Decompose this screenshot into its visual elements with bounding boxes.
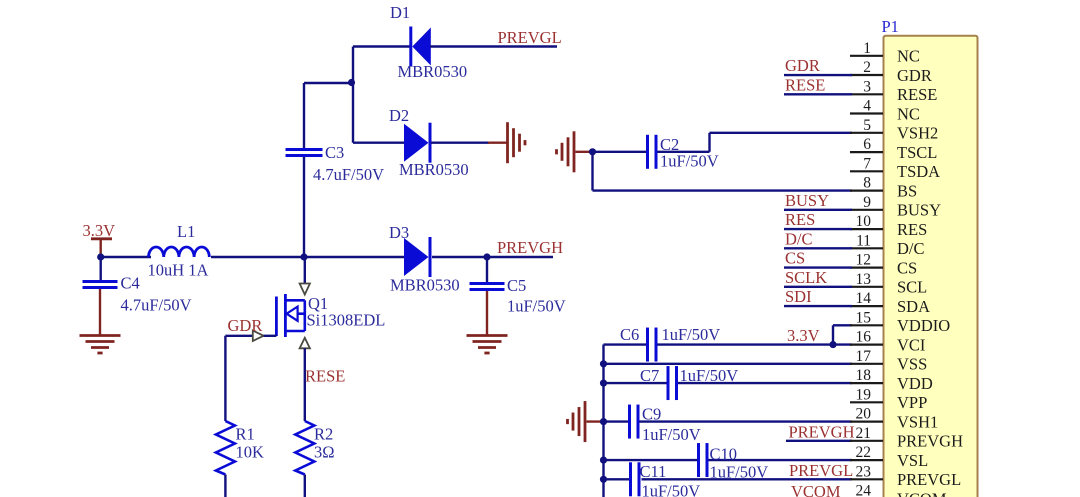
svg-text:C6: C6 [620, 325, 639, 344]
svg-text:D2: D2 [389, 106, 409, 125]
svg-text:BUSY: BUSY [897, 201, 941, 220]
svg-text:10uH 1A: 10uH 1A [148, 261, 209, 280]
svg-text:1uF/50V: 1uF/50V [680, 366, 739, 385]
svg-text:PREVGH: PREVGH [497, 238, 563, 257]
svg-text:GDR: GDR [228, 316, 263, 335]
svg-text:10K: 10K [236, 443, 265, 462]
svg-text:21: 21 [856, 425, 872, 442]
svg-text:2: 2 [863, 59, 871, 76]
svg-text:13: 13 [856, 271, 872, 288]
svg-text:1uF/50V: 1uF/50V [642, 425, 701, 444]
svg-text:C4: C4 [121, 274, 140, 293]
svg-text:1uF/50V: 1uF/50V [662, 325, 721, 344]
svg-text:6: 6 [863, 136, 871, 153]
svg-text:SCL: SCL [897, 278, 927, 297]
svg-text:VDD: VDD [897, 374, 933, 393]
svg-text:16: 16 [856, 329, 872, 346]
svg-text:L1: L1 [177, 222, 195, 241]
svg-text:SCLK: SCLK [785, 268, 827, 287]
svg-text:RESE: RESE [305, 367, 345, 386]
svg-text:MBR0530: MBR0530 [390, 276, 460, 295]
svg-text:3.3V: 3.3V [787, 326, 820, 345]
svg-text:7: 7 [863, 155, 871, 172]
svg-text:17: 17 [856, 348, 872, 365]
svg-text:C9: C9 [642, 405, 661, 424]
svg-text:12: 12 [856, 252, 872, 269]
svg-text:D3: D3 [389, 223, 409, 242]
svg-text:4: 4 [863, 98, 871, 115]
svg-text:D/C: D/C [785, 229, 813, 248]
svg-text:C3: C3 [325, 143, 344, 162]
svg-text:BS: BS [897, 181, 917, 200]
svg-text:PREVGL: PREVGL [498, 28, 562, 47]
svg-text:C10: C10 [710, 445, 738, 464]
svg-text:5: 5 [863, 117, 871, 134]
svg-text:CS: CS [897, 258, 917, 277]
svg-text:24: 24 [856, 483, 872, 497]
svg-text:RES: RES [785, 210, 815, 229]
svg-text:C11: C11 [640, 462, 667, 481]
svg-text:15: 15 [856, 309, 872, 326]
svg-text:14: 14 [856, 290, 872, 307]
svg-text:NC: NC [897, 104, 920, 123]
svg-text:NC: NC [897, 47, 920, 66]
svg-text:R1: R1 [236, 425, 255, 444]
svg-text:BUSY: BUSY [785, 191, 829, 210]
svg-text:1uF/50V: 1uF/50V [642, 482, 701, 497]
svg-text:VSH1: VSH1 [897, 412, 938, 431]
svg-text:9: 9 [863, 194, 871, 211]
svg-text:C7: C7 [640, 366, 659, 385]
svg-text:PREVGL: PREVGL [897, 470, 961, 489]
svg-text:3: 3 [863, 78, 871, 95]
svg-text:VPP: VPP [897, 393, 927, 412]
svg-text:8: 8 [863, 175, 871, 192]
svg-text:SDI: SDI [785, 287, 812, 306]
svg-text:R2: R2 [314, 425, 333, 444]
svg-text:CS: CS [785, 249, 805, 268]
svg-text:1uF/50V: 1uF/50V [660, 152, 719, 171]
svg-text:C5: C5 [507, 276, 526, 295]
svg-text:MBR0530: MBR0530 [399, 160, 469, 179]
svg-text:20: 20 [856, 406, 872, 423]
svg-text:PREVGH: PREVGH [789, 423, 855, 442]
svg-text:RESE: RESE [897, 85, 937, 104]
svg-text:PREVGL: PREVGL [789, 461, 853, 480]
svg-text:VSL: VSL [897, 451, 928, 470]
svg-text:11: 11 [856, 232, 871, 249]
svg-text:VSH2: VSH2 [897, 124, 938, 143]
svg-text:D/C: D/C [897, 239, 925, 258]
svg-text:19: 19 [856, 386, 872, 403]
svg-text:GDR: GDR [785, 56, 820, 75]
svg-text:MBR0530: MBR0530 [398, 62, 468, 81]
svg-text:TSCL: TSCL [897, 143, 937, 162]
svg-text:D1: D1 [390, 3, 410, 22]
svg-text:TSDA: TSDA [897, 162, 940, 181]
svg-text:VCI: VCI [897, 335, 925, 354]
svg-text:23: 23 [856, 463, 872, 480]
svg-text:10: 10 [856, 213, 872, 230]
svg-text:18: 18 [856, 367, 872, 384]
svg-text:Si1308EDL: Si1308EDL [307, 311, 386, 330]
svg-text:VSS: VSS [897, 355, 927, 374]
svg-text:22: 22 [856, 444, 872, 461]
svg-text:1: 1 [863, 40, 871, 57]
svg-text:VCOM: VCOM [791, 482, 841, 497]
svg-text:PREVGH: PREVGH [897, 432, 963, 451]
svg-text:3.3V: 3.3V [83, 221, 116, 240]
svg-text:SDA: SDA [897, 297, 930, 316]
svg-text:RES: RES [897, 220, 927, 239]
svg-text:VCOM: VCOM [897, 489, 947, 497]
svg-text:1uF/50V: 1uF/50V [507, 297, 566, 316]
svg-text:4.7uF/50V: 4.7uF/50V [121, 296, 192, 315]
svg-text:RESE: RESE [785, 75, 825, 94]
svg-text:GDR: GDR [897, 66, 932, 85]
svg-text:4.7uF/50V: 4.7uF/50V [313, 165, 384, 184]
svg-text:VDDIO: VDDIO [897, 316, 950, 335]
svg-text:P1: P1 [882, 17, 899, 36]
svg-text:3Ω: 3Ω [314, 443, 335, 462]
